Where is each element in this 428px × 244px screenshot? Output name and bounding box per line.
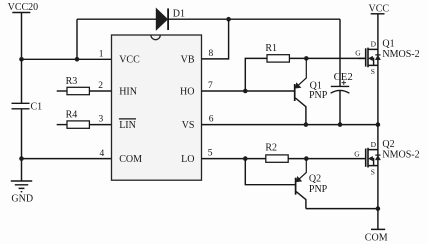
svg-text:2: 2 (98, 81, 103, 91)
svg-text:D: D (371, 40, 377, 49)
wire pin4 COM row to left rail (22, 158, 112, 160)
node junction LO / Q2 PNP emitter (304, 156, 309, 161)
svg-text:S: S (371, 167, 375, 176)
svg-text:8: 8 (209, 49, 214, 59)
resistor R4 (57, 109, 112, 128)
node junction VB riser (226, 17, 231, 22)
svg-text:D1: D1 (173, 9, 185, 20)
node junction riser to D1 (75, 57, 80, 62)
resistor R3 (57, 76, 112, 95)
wire R1 to Q1 NMOS gate (289, 57, 365, 59)
svg-text:S: S (371, 67, 375, 76)
svg-text:3: 3 (98, 115, 103, 125)
wire R1 branch riser (245, 58, 267, 91)
node junction R1 / Q1 PNP emitter (304, 56, 309, 61)
svg-text:D: D (371, 140, 377, 149)
diode D1 (156, 8, 185, 30)
svg-text:COM: COM (119, 154, 142, 165)
node junction VS / Q1 collector (304, 122, 309, 127)
svg-text:Q1: Q1 (382, 39, 394, 50)
svg-text:1: 1 (99, 49, 104, 59)
svg-text:NMOS-2: NMOS-2 (382, 49, 419, 60)
svg-text:VCC: VCC (119, 55, 140, 66)
svg-text:7: 7 (208, 81, 213, 91)
wire top rail to D1 anode (77, 18, 156, 20)
svg-text:R4: R4 (66, 109, 78, 120)
svg-text:CE2: CE2 (334, 71, 353, 83)
svg-text:5: 5 (208, 149, 213, 159)
svg-text:PNP: PNP (309, 90, 328, 101)
svg-text:R1: R1 (265, 43, 277, 54)
power symbol VCC20 (8, 2, 39, 59)
power symbol COM (low rail) (365, 209, 388, 244)
svg-text:COM: COM (365, 232, 388, 243)
wire Q2 base branch (245, 159, 295, 185)
wire pin1 row from VCC20 rail to IC pin 1 (22, 58, 112, 60)
node junction LO / Q2 base branch (243, 156, 248, 161)
node junction VS / half-bridge midpoint (376, 122, 381, 127)
wire pin7 HO row to Q1 base (202, 90, 295, 92)
wire D1 cathode to bootstrap corner (168, 18, 340, 20)
svg-text:PNP: PNP (309, 184, 328, 195)
transistor Q2 PNP (296, 159, 328, 209)
svg-text:R3: R3 (66, 76, 78, 87)
power symbol VCC (high side) (369, 4, 390, 15)
svg-text:VB: VB (181, 55, 195, 66)
svg-text:Q2: Q2 (382, 139, 394, 150)
svg-text:HO: HO (180, 86, 194, 97)
svg-text:VCC: VCC (369, 4, 390, 15)
svg-text:LIN: LIN (119, 120, 136, 131)
resistor R2 (265, 142, 288, 162)
svg-text:HIN: HIN (119, 86, 137, 97)
svg-text:G: G (354, 149, 360, 158)
capacitor CE2 (331, 71, 353, 125)
svg-text:NMOS-2: NMOS-2 (382, 150, 419, 161)
svg-text:4: 4 (99, 149, 104, 159)
resistor R1 (265, 43, 289, 62)
wire VCC to Q1 drain and half bridge vertical (377, 14, 379, 125)
svg-text:R2: R2 (265, 142, 277, 153)
svg-text:G: G (355, 49, 361, 58)
wire Q2 collector to COM node (306, 208, 378, 210)
svg-text:VS: VS (182, 120, 195, 131)
transistor Q2 NMOS-2 (354, 139, 419, 176)
svg-text:6: 6 (209, 115, 214, 125)
svg-text:VCC20: VCC20 (8, 2, 39, 13)
transistor Q1 NMOS-2 (355, 39, 419, 76)
transistor Q1 PNP (295, 58, 328, 124)
node junction VCC rail / pin1 (19, 57, 24, 62)
svg-text:GND: GND (11, 194, 33, 205)
wire half bridge low side vertical (377, 125, 379, 209)
wire bootstrap drop to CE2 (339, 19, 341, 86)
ground GND (11, 181, 33, 205)
node junction COM / Q2 source (376, 206, 381, 211)
wire pin5 LO row to Q2 NMOS gate (202, 158, 366, 160)
wire riser to top rail (76, 19, 78, 59)
svg-text:C1: C1 (31, 101, 43, 112)
node junction HO / R1 branch (243, 89, 248, 94)
op-amp U1 gate driver IC body (112, 35, 202, 180)
wire pin8 VB stub and riser (202, 19, 229, 59)
capacitor C1 (12, 59, 43, 181)
wire pin6 VS row (202, 124, 378, 126)
node junction VS / CE2 (338, 122, 343, 127)
node junction left rail / pin4 (19, 156, 24, 161)
svg-text:LO: LO (181, 154, 194, 165)
